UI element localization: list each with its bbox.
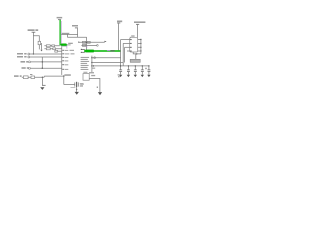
wire TP4 to IC — [31, 67, 62, 69]
wire row A to bead — [44, 45, 59, 47]
pin wedge marks on IC left edge — [62, 50, 64, 70]
wire vertical x118.6 label to green — [118, 23, 120, 50]
node dot — [42, 61, 43, 62]
wire row B — [44, 48, 61, 50]
tick — [117, 22, 120, 24]
wire vertical x137.5 — [137, 25, 139, 38]
oscillator X1 box — [83, 74, 89, 81]
wire vertical bus x91.9 — [91, 56, 93, 73]
component box 2 on wire — [87, 41, 90, 43]
wire below resistor — [38, 45, 40, 50]
plus sign polarized cap — [145, 67, 147, 69]
value labels right of rows — [70, 50, 75, 55]
testpoint TP2 label — [17, 56, 27, 58]
grey component box — [130, 59, 140, 62]
wire green vertical from 1V8 — [59, 20, 61, 45]
power symbol cross tick — [42, 84, 45, 86]
wire tick under 1V8 label — [58, 19, 61, 21]
net label above x120.3 — [117, 21, 122, 23]
wire y34.4 — [61, 33, 77, 35]
offpage arrow right — [105, 41, 107, 43]
node junction dot at 42 — [42, 77, 43, 78]
label U2 — [131, 35, 134, 36]
wire cap rail y65.9 — [93, 65, 148, 67]
resistor RB2 box — [53, 48, 56, 50]
tiny text right of box — [118, 74, 120, 77]
capacitor C5 — [148, 66, 150, 70]
wire from X1 to gnd arrow — [89, 79, 100, 93]
wire left branch vertical — [32, 32, 34, 54]
capacitor C1 — [120, 66, 122, 70]
tick above L2 — [30, 73, 32, 75]
wire vertical x123.2 — [122, 43, 124, 66]
wire bottom row to x63.8 — [22, 76, 64, 77]
node net label top-left branch — [28, 29, 39, 31]
tiny label 1 — [97, 87, 98, 89]
ferrite bead FB1 green highlighted — [60, 44, 67, 46]
wire y57.8 to right — [92, 57, 121, 59]
node 1V8 power label — [57, 17, 63, 19]
mark on bottom wire — [136, 53, 138, 54]
pin stubs right of U2 with dots — [138, 40, 141, 52]
IC U2 box — [130, 38, 138, 52]
ground arrow head — [98, 92, 102, 95]
wire stem to gnd — [76, 87, 78, 92]
wire stub to R — [33, 36, 39, 42]
wire long green net — [84, 50, 121, 52]
node junction dot — [33, 53, 34, 54]
crystal side marks — [80, 83, 83, 86]
wire TP2 to IC — [30, 56, 62, 58]
testpoint TP3 label — [21, 61, 29, 63]
wire row y45.4 with component — [81, 44, 96, 46]
wire row C short — [58, 50, 62, 52]
wire y42.3 to arrow — [79, 41, 105, 43]
pin stubs left of U2 — [121, 39, 130, 41]
pin name texts — [65, 50, 70, 70]
offpage down arrow x41.5 — [41, 43, 43, 50]
pin stub bars near green start — [81, 48, 85, 50]
testpoint TP1 label — [17, 53, 27, 55]
wire vertical x42 lower — [41, 77, 43, 85]
component box — [82, 45, 85, 47]
wire purple parallel vertical — [60, 21, 62, 45]
testpoint TP3 circle — [29, 61, 31, 63]
tiny text under rail start — [92, 68, 95, 69]
testpoint TP4 circle — [29, 67, 31, 69]
wire TP3 to IC — [31, 61, 62, 63]
resistor R small box — [38, 41, 41, 44]
node dot — [86, 42, 87, 43]
wire TP1 to IC — [30, 53, 62, 55]
wire tick — [32, 31, 36, 33]
label above mid wire — [62, 33, 70, 34]
wire vertical x124.6 — [124, 47, 126, 62]
testpoint TP2 circle — [28, 56, 30, 58]
stub row above box — [83, 71, 87, 73]
wire vertical x120.6 pins to rail — [120, 40, 122, 66]
node dots on bus — [91, 57, 92, 58]
wire y62.5 to right — [92, 62, 123, 64]
tick — [75, 27, 78, 29]
inductor L1 box — [23, 76, 28, 79]
wire y37.3 — [67, 36, 86, 38]
pin wedges — [130, 39, 132, 52]
top-left pin tick — [129, 36, 131, 39]
resistor RA box — [46, 45, 50, 47]
capacitor C4 — [141, 66, 143, 70]
power arrow head — [40, 87, 44, 90]
node dot under crystal — [76, 89, 77, 90]
wire vertical x77.6 — [77, 28, 79, 37]
wire vertical bus x42 upper — [41, 57, 43, 69]
resistor box on wire — [82, 41, 85, 43]
no-connect circle A on line — [94, 57, 96, 59]
IC U1 left edge — [61, 47, 63, 75]
net label x77.6 — [72, 25, 78, 27]
wire vertical x142.3 — [140, 40, 142, 54]
testpoint TP1 circle — [28, 53, 30, 55]
node junction dot at 63.8 — [63, 75, 64, 76]
node label bottom-left row — [14, 75, 22, 77]
wire vert x86.6 down to green — [86, 37, 88, 50]
wire purple under bead — [61, 46, 67, 49]
ground arrow head — [75, 92, 79, 95]
wire bead right lead — [67, 44, 70, 46]
wire to crystal — [64, 84, 75, 86]
crystal Y1 — [74, 82, 76, 86]
testpoint TP4 label — [22, 67, 29, 69]
U1 refdes text under — [80, 83, 84, 86]
tick — [136, 23, 139, 25]
node dot — [42, 68, 43, 69]
U2 bottom pin L wire — [133, 52, 141, 54]
capacitor C3 — [134, 66, 136, 70]
wire second lead — [71, 86, 76, 88]
inductor L2 box — [31, 76, 35, 79]
resistor RB box — [46, 48, 50, 50]
net label above x137.5 — [134, 21, 145, 23]
resistor RC box — [55, 50, 58, 52]
purple dot — [86, 46, 87, 49]
left end mark — [78, 42, 79, 43]
purple tick near green — [107, 50, 110, 51]
wire vert x67.4 — [66, 34, 68, 37]
label under IC left — [64, 74, 70, 76]
wire vertical x63.8 to crystal — [63, 76, 65, 84]
pin text column center — [81, 57, 90, 70]
ferrite bead FB2 green highlighted — [86, 50, 94, 52]
no-connect circle — [97, 45, 99, 47]
capacitor C2 — [127, 66, 129, 70]
